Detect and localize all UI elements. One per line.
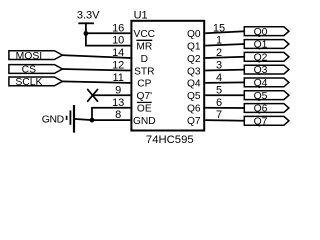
svg-text:8: 8 — [115, 109, 121, 121]
svg-text:74HC595: 74HC595 — [146, 134, 194, 146]
svg-text:16: 16 — [112, 22, 124, 34]
svg-text:Q4: Q4 — [187, 79, 201, 90]
wire 3.3V branch to pin 16 — [86, 32, 130, 34]
wire pin 4 to Q4 flag — [205, 81, 245, 84]
svg-text:Q5: Q5 — [254, 91, 268, 102]
no-connect X on pin 9 — [87, 89, 98, 102]
svg-text:5: 5 — [216, 84, 222, 96]
pin label D — [141, 54, 148, 65]
pin label STR — [134, 66, 154, 77]
pin label Q7' — [137, 91, 153, 102]
svg-text:6: 6 — [216, 97, 222, 109]
wire MOSI flag to pin 14 — [62, 55, 131, 58]
wire branch GND to pin 13 OE — [92, 108, 130, 120]
wire pin 9 Q7' — [93, 94, 131, 96]
svg-text:U1: U1 — [134, 10, 148, 22]
svg-text:Q3: Q3 — [187, 66, 201, 77]
wire pin 5 to Q5 flag — [205, 94, 245, 96]
pin label GND — [133, 116, 156, 127]
svg-text:Q1: Q1 — [187, 41, 201, 52]
pin label MR — [136, 40, 152, 52]
svg-text:CS: CS — [22, 65, 37, 76]
svg-text:Q4: Q4 — [254, 78, 268, 89]
svg-text:9: 9 — [115, 84, 121, 96]
svg-text:MR: MR — [136, 41, 152, 52]
svg-text:3.3V: 3.3V — [77, 10, 100, 22]
svg-text:VCC: VCC — [134, 29, 156, 40]
svg-text:STR: STR — [134, 66, 154, 77]
junction dot on GND wire — [90, 118, 95, 123]
net flag Q4 — [244, 78, 289, 89]
net flag Q6 — [244, 104, 289, 115]
pin label OE — [137, 102, 152, 114]
IC U1 body — [131, 21, 204, 131]
wire pin 15 to Q0 flag — [205, 31, 245, 33]
junction dot on 3.3V stem — [84, 31, 89, 36]
net flag Q1 — [244, 40, 289, 51]
svg-text:2: 2 — [216, 47, 222, 59]
svg-text:10: 10 — [112, 35, 124, 47]
svg-text:CP: CP — [137, 79, 151, 90]
svg-text:Q2: Q2 — [187, 54, 201, 65]
svg-text:14: 14 — [112, 47, 124, 59]
svg-text:4: 4 — [216, 72, 222, 84]
wire 3.3V stem to pin 10 — [86, 23, 130, 45]
wire GND to pin 8 — [74, 119, 130, 120]
svg-text:Q6: Q6 — [254, 104, 268, 115]
svg-text:Q5: Q5 — [187, 91, 201, 102]
wire CS flag to pin 12 — [62, 69, 131, 71]
net flag SCLK — [9, 77, 63, 88]
svg-text:GND: GND — [42, 115, 64, 126]
wire pin 2 to Q2 flag — [205, 57, 245, 58]
pin label CP — [137, 79, 151, 90]
power rail 3.3V bar symbol — [78, 22, 94, 24]
svg-text:15: 15 — [213, 22, 225, 34]
svg-text:D: D — [141, 54, 148, 65]
net flag CS — [9, 65, 63, 76]
svg-text:Q0: Q0 — [254, 27, 268, 38]
svg-text:7: 7 — [216, 109, 222, 121]
svg-text:Q3: Q3 — [254, 65, 268, 76]
svg-text:Q2: Q2 — [254, 52, 268, 63]
net flag Q0 — [244, 27, 289, 38]
svg-text:Q7: Q7 — [187, 116, 201, 127]
svg-text:3: 3 — [216, 60, 222, 72]
svg-text:GND: GND — [133, 116, 156, 127]
wire pin 1 to Q1 flag — [205, 44, 245, 46]
svg-text:Q6: Q6 — [187, 104, 201, 115]
net flag Q2 — [244, 52, 289, 63]
svg-text:Q7: Q7 — [254, 116, 268, 127]
wire pin 3 to Q3 flag — [205, 69, 245, 72]
wire pin 6 to Q6 flag — [205, 107, 245, 109]
svg-text:Q0: Q0 — [187, 29, 201, 40]
svg-text:OE: OE — [137, 104, 152, 115]
wire SCLK flag to pin 11 — [62, 81, 131, 83]
pin label VCC — [134, 29, 156, 40]
svg-text:MOSI: MOSI — [16, 51, 43, 62]
net flag Q5 — [244, 91, 289, 102]
svg-text:1: 1 — [216, 35, 222, 47]
net flag MOSI — [9, 51, 63, 62]
wire pin 7 to Q7 flag — [205, 119, 245, 122]
svg-text:11: 11 — [112, 72, 123, 84]
svg-text:12: 12 — [112, 60, 124, 72]
net flag Q7 — [244, 116, 289, 127]
svg-text:SCLK: SCLK — [15, 77, 42, 88]
svg-text:Q1: Q1 — [254, 40, 268, 51]
ground symbol bars — [67, 105, 74, 133]
svg-text:Q7': Q7' — [137, 91, 153, 102]
svg-text:13: 13 — [112, 97, 124, 109]
net flag Q3 — [244, 65, 289, 76]
